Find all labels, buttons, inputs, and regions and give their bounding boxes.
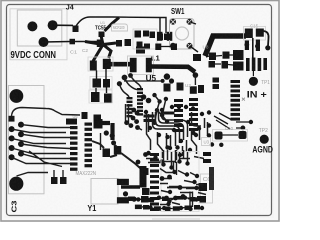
via pair below U5: [164, 73, 170, 79]
capacitor C6 outline: [201, 174, 213, 203]
pad P2: [103, 59, 111, 69]
diode D1 bar pads: [157, 32, 163, 41]
center bars: [144, 115, 155, 118]
thick bar into L1: [110, 62, 130, 67]
thick bar from L1 to via: [151, 67, 195, 73]
DB9 pin1 square pad: [9, 116, 15, 122]
big pad pair: [233, 50, 244, 60]
photo border: [1, 1, 279, 222]
wire SW1 bottom row: [158, 46, 174, 48]
DB9 round pins left column: [9, 126, 15, 132]
crystal Y1 pad 1: [117, 179, 129, 185]
wire C4 up and right to SW1: [76, 17, 166, 33]
board outline: [7, 5, 272, 216]
via loop right of C15: [264, 31, 269, 46]
test point TP2: [260, 135, 269, 144]
pad U1 top: [99, 32, 105, 38]
crystal Y1 silkscreen: [91, 179, 118, 205]
vias near Y1: [123, 191, 128, 196]
connector J4 body box: [17, 10, 62, 46]
pads right of X junction: [116, 40, 122, 47]
crystal Y1 pad 2: [117, 197, 129, 203]
SW1 left pads: [157, 34, 163, 41]
wires cluster D: [206, 55, 233, 65]
switch SW1 pin C: [170, 43, 176, 49]
pads left of U3 column: [141, 168, 149, 175]
inductor L1 pad right: [146, 58, 152, 73]
test point TP1: [249, 77, 258, 86]
bottom pad row: [128, 196, 203, 211]
U2 pads top: [164, 84, 171, 92]
pad C1a: [70, 39, 76, 45]
scan noise overlay: [4, 3, 274, 218]
DB9 round pins right column: [18, 122, 24, 128]
silkscreen boxes around pads: [90, 77, 112, 90]
vias right of U4: [141, 94, 147, 100]
DB9 mounting hole top: [10, 89, 24, 103]
wire to C6: [167, 187, 199, 189]
C15 lower stub pads: [245, 41, 249, 51]
pads left of column: [213, 78, 220, 83]
X junction traces: [85, 18, 119, 63]
capacitor C9 silkscreen: [213, 130, 248, 142]
center trace bundle: [146, 112, 208, 163]
vias below L trace: [104, 130, 109, 135]
wires via cluster: [155, 95, 168, 123]
IC U2 left pad column: [174, 99, 183, 132]
bottom right traces and vias: [163, 179, 192, 199]
IC U3 body silkscreen: [161, 152, 199, 212]
vertical traces above U3: [164, 150, 188, 166]
region E wires: [236, 122, 251, 128]
vias left of U4: [117, 81, 122, 86]
capacitor bars right: [246, 58, 250, 71]
center vias: [148, 126, 152, 130]
thick vertical trace right of Y1: [140, 166, 147, 188]
thick L trace: [96, 121, 113, 140]
DB9 mounting hole bottom: [9, 177, 23, 191]
small IC U4 pad columns: [127, 88, 144, 117]
connector J4 pad 2: [48, 20, 58, 30]
DB9 connector J3 body: [8, 86, 44, 194]
switch SW1 button circle: [176, 27, 189, 40]
wire SW1 pinD to power trace: [190, 46, 199, 52]
wires DB9 to U6: [12, 108, 81, 177]
capacitor C15 silkscreen: [244, 27, 266, 41]
pad C4a: [73, 26, 79, 33]
pad above U6: [82, 112, 88, 119]
switch SW1 body: [170, 19, 195, 50]
connector J4 pad 1: [27, 21, 37, 31]
pad U1 bottom: [97, 40, 104, 48]
wire C1 to X junction: [75, 41, 97, 43]
inductor L1 body silkscreen: [128, 56, 154, 75]
connector J4 outer silkscreen box: [10, 9, 67, 60]
IC column right x230: [231, 80, 241, 121]
IC U6 right pad column: [85, 123, 93, 168]
switch SW1 pin D: [187, 43, 193, 49]
thick power trace to C15: [205, 36, 246, 56]
connector J4 pad 3: [39, 37, 49, 47]
wire C15 down to caps: [252, 38, 254, 58]
capacitor C9 pads: [215, 132, 223, 140]
capacitor C15 pad 2: [256, 29, 264, 37]
cluster D2/C5 pads: [135, 31, 142, 38]
via cluster below U5: [152, 93, 156, 97]
capacitor C15 pad 1: [245, 29, 253, 39]
pads right bottom area: [203, 152, 211, 156]
pads mid center: [103, 149, 111, 158]
silkscreen around cluster: [133, 29, 157, 49]
right vertical bar: [209, 167, 214, 190]
switch SW1 pin A: [170, 19, 176, 25]
inductor L1 pad left: [130, 58, 137, 73]
U3 designator box: [202, 138, 211, 146]
loop trace: [222, 134, 238, 136]
IC U3 left pad column: [150, 153, 159, 211]
dot cluster right of MAX222: [124, 120, 129, 125]
feeder curves to U4: [119, 76, 141, 98]
transistor MCR100 outline: [112, 24, 128, 31]
pad P1: [90, 61, 97, 71]
wire pad2 down: [96, 69, 107, 93]
wire SW1 pinB diagonal: [190, 22, 197, 24]
vertical pairs bottom: [174, 162, 193, 207]
pads below DB9: [51, 177, 58, 184]
faint caption remnant: [152, 218, 200, 220]
top right of U5: pads: [193, 54, 201, 61]
wires center: [92, 141, 140, 168]
region D cluster pads R/C row: [209, 53, 216, 61]
wire J4 pad3 right: [44, 41, 71, 44]
switch SW1 pin B: [187, 19, 193, 25]
mark x near IN: [242, 98, 245, 101]
wire J4 pad2 to pad C4: [53, 24, 73, 26]
IC U2 right pad column: [189, 98, 198, 131]
vertical pair traces: [101, 104, 129, 150]
capacitor C6 pads: [199, 183, 208, 191]
pad left of U4: [104, 94, 113, 104]
extra bottom traces: [160, 169, 206, 205]
wire under U5: [124, 80, 162, 82]
diagonal traces region E: [214, 113, 232, 129]
pad bar below cluster: [136, 47, 145, 54]
IC U6 (MAX222) left pad column: [66, 119, 78, 171]
